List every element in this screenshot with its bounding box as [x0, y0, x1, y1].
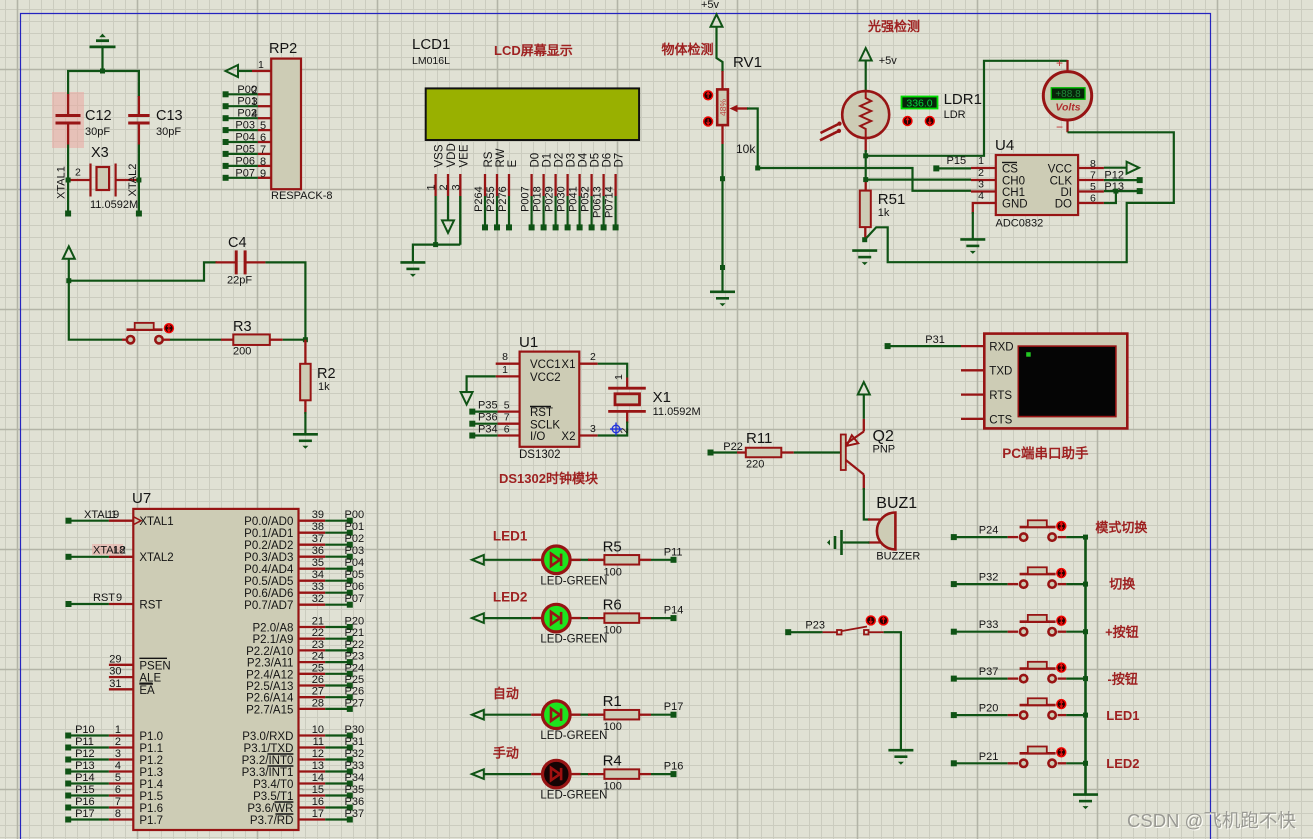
- wire P14: [68, 782, 109, 784]
- net label P13: [1104, 181, 1124, 193]
- value 100: [604, 566, 622, 578]
- svg-text:DI: DI: [1061, 187, 1073, 199]
- terminal P05: [347, 578, 353, 584]
- net label XTAL2: [93, 545, 126, 557]
- pin number 31: [109, 678, 121, 690]
- pin RP2 6: [258, 141, 271, 143]
- pin name P1.0: [139, 731, 163, 743]
- ground BUZ1 (rotated): [827, 530, 842, 555]
- svg-text:1: 1: [978, 155, 984, 167]
- pin name XTAL2: [139, 552, 173, 564]
- svg-text:38: 38: [312, 521, 324, 533]
- pin U1 6: [498, 434, 520, 436]
- net label P36: [345, 796, 365, 808]
- wire to X1 top: [598, 364, 628, 378]
- svg-text:P17: P17: [664, 701, 684, 713]
- capacitor C12: [56, 116, 81, 124]
- pin name CS: [1002, 164, 1018, 176]
- pin U4 1: [971, 167, 996, 169]
- terminal P35: [347, 793, 353, 799]
- terminal P22: [347, 647, 353, 653]
- terminal P36: [347, 805, 353, 811]
- svg-text:11.0592M: 11.0592M: [90, 199, 138, 211]
- terminal P31: [885, 343, 891, 349]
- net +5v: [701, 0, 720, 11]
- pin LCD D0: [530, 174, 532, 196]
- net label P03: [345, 545, 365, 557]
- svg-text:27: 27: [312, 686, 324, 698]
- svg-text:6: 6: [504, 424, 510, 436]
- pin U7 8: [109, 818, 133, 820]
- net label P10: [75, 724, 95, 736]
- svg-text:P0.1/AD1: P0.1/AD1: [244, 528, 293, 540]
- wire XTAL1: [69, 520, 109, 522]
- pin LDR bottom lead: [865, 138, 867, 153]
- terminal P01: [223, 103, 229, 109]
- svg-text:LED-GREEN: LED-GREEN: [540, 634, 607, 646]
- net label P20: [345, 616, 365, 628]
- pin LCD VDD: [447, 174, 449, 196]
- wire net P041: [578, 196, 580, 227]
- LDR LDR1 photoresistor: [820, 91, 889, 140]
- svg-text:30pF: 30pF: [85, 126, 110, 138]
- pin U7 30: [109, 676, 133, 678]
- wire LED1 to R5: [581, 559, 590, 561]
- net label P22: [345, 639, 365, 651]
- pin U1 5: [498, 410, 520, 412]
- terminal P041: [577, 224, 583, 230]
- wire P00: [226, 93, 258, 95]
- svg-text:7: 7: [115, 796, 121, 808]
- pin number 7: [260, 144, 266, 156]
- pin number 35: [312, 557, 324, 569]
- net label P15: [75, 784, 95, 796]
- svg-text:RW: RW: [495, 148, 507, 167]
- wire net P0714: [614, 196, 616, 227]
- wire net P052: [590, 196, 592, 227]
- net label P029: [544, 186, 556, 212]
- pin name E: [507, 160, 519, 168]
- pin C13 top lead: [138, 96, 140, 115]
- pin name D0: [530, 153, 542, 168]
- svg-text:336.0: 336.0: [906, 98, 932, 110]
- svg-text:PC端串口助手: PC端串口助手: [1002, 445, 1089, 461]
- wire RV1 to CH1: [758, 168, 971, 191]
- adjust button LDR down: [925, 116, 935, 126]
- pin LCD VEE: [459, 174, 461, 196]
- terminal P23: [785, 629, 791, 635]
- label Q2: [873, 428, 894, 445]
- svg-text:D4: D4: [578, 152, 590, 167]
- adjust button reset: [164, 323, 174, 333]
- terminal P02: [223, 115, 229, 121]
- svg-text:R11: R11: [746, 430, 772, 447]
- terminal P029: [553, 224, 559, 230]
- net label RST: [93, 592, 115, 604]
- svg-text:5: 5: [260, 120, 266, 132]
- pin number 5: [115, 772, 121, 784]
- svg-text:1: 1: [258, 59, 264, 71]
- wire XTAL top rail: [68, 71, 139, 97]
- arrow output LED auto: [472, 710, 484, 720]
- label minus: [1056, 120, 1063, 134]
- pin name PSEN: [139, 660, 170, 672]
- pin U4 2: [971, 179, 996, 181]
- svg-text:P007: P007: [520, 186, 532, 212]
- svg-text:26: 26: [312, 674, 324, 686]
- svg-text:P3.7/RD: P3.7/RD: [250, 815, 293, 827]
- arrow output LED manual: [472, 769, 484, 779]
- pin U4 8: [1078, 167, 1104, 169]
- wire P13: [1104, 190, 1140, 192]
- potentiometer RV1: [717, 89, 728, 125]
- junction R51 top: [863, 177, 868, 182]
- net label P37: [979, 666, 999, 678]
- pin name D3: [566, 153, 578, 168]
- net label P0613: [592, 186, 604, 218]
- pin number 7: [1090, 170, 1096, 182]
- svg-text:DS1302时钟模块: DS1302时钟模块: [499, 471, 599, 486]
- pin U7 7: [109, 806, 133, 808]
- pin U7 37: [299, 544, 326, 546]
- pin number 24: [312, 651, 324, 663]
- terminal P03: [347, 554, 353, 560]
- svg-text:P3.6/WR: P3.6/WR: [247, 803, 293, 815]
- wire R11 to Q2 base: [794, 451, 841, 453]
- pin number 2: [115, 736, 121, 748]
- pin R3 left lead: [221, 339, 233, 341]
- svg-text:P13: P13: [75, 760, 95, 772]
- svg-text:P32: P32: [345, 748, 365, 760]
- resistor R1: [604, 710, 639, 720]
- svg-text:+按钮: +按钮: [1105, 625, 1139, 640]
- pin R2 bottom lead: [304, 400, 306, 414]
- wire P15: [936, 167, 971, 169]
- push button P37: [1020, 662, 1056, 683]
- net label P16: [75, 796, 95, 808]
- svg-text:P33: P33: [979, 619, 999, 631]
- pin R11 right lead: [781, 451, 794, 453]
- pin name DO: [1055, 199, 1072, 211]
- wire P21: [954, 762, 1008, 764]
- svg-text:21: 21: [312, 616, 324, 628]
- pin name VEE: [458, 144, 470, 167]
- terminal P11: [65, 745, 71, 751]
- svg-text:P37: P37: [345, 808, 365, 820]
- net label P255: [485, 186, 497, 212]
- pin U7 10: [299, 734, 326, 736]
- pin U1 3: [579, 434, 597, 436]
- svg-text:P30: P30: [345, 724, 365, 736]
- wire P25: [325, 684, 350, 686]
- terminal P01: [347, 530, 353, 536]
- label plus: [1056, 56, 1063, 70]
- arrow output LED1: [472, 555, 484, 565]
- value LED-GREEN: [540, 730, 607, 742]
- svg-text:200: 200: [233, 346, 251, 358]
- wire P20: [325, 626, 350, 628]
- pin name P1.7: [139, 815, 163, 827]
- wire P31: [325, 746, 350, 748]
- pin X3 lead 1: [68, 179, 90, 181]
- wire P37: [954, 677, 1008, 679]
- wire VEE to VSS: [436, 244, 461, 246]
- caption PC端串口助手: [1002, 445, 1089, 461]
- svg-text:1k: 1k: [318, 381, 330, 393]
- wire XTAL1 down: [67, 180, 69, 213]
- net label P23: [805, 620, 825, 632]
- terminal P264: [482, 224, 488, 230]
- terminal P15: [65, 793, 71, 799]
- pin number 2: [438, 184, 450, 190]
- pin number 9: [260, 168, 266, 180]
- pin number 13: [312, 760, 324, 772]
- terminal XTAL1: [65, 211, 71, 217]
- push button reset: [127, 323, 163, 344]
- svg-text:EA: EA: [139, 685, 155, 697]
- pin number 3: [252, 96, 258, 108]
- pin name D4: [578, 152, 590, 167]
- net label P24: [979, 525, 999, 537]
- pin number 1: [258, 59, 264, 71]
- svg-text:D1: D1: [542, 153, 554, 168]
- svg-text:DS1302: DS1302: [519, 449, 561, 461]
- pin number 3: [450, 184, 462, 190]
- svg-text:48%: 48%: [718, 99, 728, 116]
- pin name P1.5: [139, 791, 163, 803]
- svg-text:P14: P14: [75, 772, 95, 784]
- net label P31: [925, 334, 945, 346]
- net label P30: [345, 724, 365, 736]
- wire LCD VDD: [447, 196, 449, 221]
- svg-text:P21: P21: [979, 751, 999, 763]
- caption LED2: [493, 589, 528, 604]
- svg-text:P24: P24: [979, 525, 999, 537]
- svg-text:P22: P22: [345, 639, 365, 651]
- terminal P14: [671, 615, 677, 621]
- pin RXD: [961, 345, 984, 347]
- svg-text:P3.2/INT0: P3.2/INT0: [242, 755, 294, 767]
- pin R6 left lead: [588, 617, 604, 619]
- label X3: [91, 145, 109, 161]
- pin button P37 right: [1058, 677, 1067, 679]
- wire P00: [325, 520, 350, 522]
- svg-text:P2.2/A10: P2.2/A10: [246, 646, 293, 658]
- svg-text:BUZZER: BUZZER: [876, 551, 920, 563]
- junction reset node: [66, 278, 71, 283]
- terminal P37: [951, 676, 957, 682]
- svg-text:物体检测: 物体检测: [662, 42, 714, 57]
- wire P27: [325, 708, 350, 710]
- pin number 1: [502, 364, 508, 376]
- net label P32: [345, 748, 365, 760]
- value 220: [746, 459, 764, 471]
- svg-text:RST: RST: [93, 592, 115, 604]
- adjust button RV1 down: [703, 116, 713, 126]
- wire P03: [325, 556, 350, 558]
- pin R5 right lead: [639, 559, 651, 561]
- ground R51: [852, 251, 877, 266]
- pin name P2.7/A15: [246, 704, 293, 716]
- pin U7 12: [299, 758, 326, 760]
- wire P02: [226, 117, 258, 119]
- pin name CLK: [1050, 176, 1073, 188]
- terminal P33: [951, 629, 957, 635]
- wire P24: [325, 673, 350, 675]
- pin U7 31: [109, 688, 133, 690]
- svg-text:LCD屏幕显示: LCD屏幕显示: [494, 43, 573, 58]
- svg-text:11.0592M: 11.0592M: [653, 406, 701, 418]
- junction DI/DO: [1113, 189, 1118, 194]
- pin name VCC2: [530, 372, 561, 384]
- power +5V arrow reset: [63, 246, 75, 258]
- pin name P0.2/AD2: [244, 540, 293, 552]
- wire P36: [325, 806, 350, 808]
- svg-text:P3.5/T1: P3.5/T1: [253, 791, 293, 803]
- pin name I/O: [530, 431, 545, 443]
- svg-text:LED1: LED1: [1106, 708, 1139, 723]
- svg-text:3: 3: [252, 96, 258, 108]
- svg-text:34: 34: [312, 569, 324, 581]
- pin LCD D2: [554, 174, 556, 196]
- net label P041: [568, 186, 580, 212]
- svg-text:P06: P06: [235, 155, 255, 167]
- caption 切换: [1109, 577, 1136, 592]
- net label P33: [345, 760, 365, 772]
- wire net P264: [484, 196, 486, 227]
- pin U7 35: [299, 568, 326, 570]
- origin marker: [610, 423, 622, 436]
- wire net P255: [496, 196, 498, 227]
- label U4: [995, 137, 1014, 154]
- svg-text:CSDN @飞机跑不快: CSDN @飞机跑不快: [1127, 810, 1296, 831]
- net label P052: [580, 186, 592, 212]
- svg-text:XTAL1: XTAL1: [56, 166, 68, 199]
- pin R51 top lead: [865, 180, 867, 191]
- terminal P34: [347, 781, 353, 787]
- terminal P14: [65, 781, 71, 787]
- svg-text:P36: P36: [345, 796, 365, 808]
- svg-text:P07: P07: [235, 167, 255, 179]
- pin number 19: [107, 509, 119, 521]
- pin U7 2: [109, 746, 133, 748]
- power arrow VCC2: [461, 392, 473, 405]
- value 100: [604, 625, 622, 637]
- pin name D1: [542, 153, 554, 168]
- resistor R51: [860, 191, 871, 228]
- terminal P03: [223, 127, 229, 133]
- net label P07: [345, 593, 365, 605]
- terminal P04: [223, 139, 229, 145]
- push button P33: [1020, 615, 1056, 636]
- pin name P1.3: [139, 767, 163, 779]
- svg-text:P1.7: P1.7: [139, 815, 163, 827]
- net label P276: [497, 186, 509, 212]
- pin number 4: [252, 108, 258, 120]
- wire P33 to bus: [1066, 631, 1085, 633]
- svg-text:+5v: +5v: [701, 0, 720, 11]
- pin BUZ1 +: [868, 518, 881, 520]
- pin U4 3: [971, 190, 996, 192]
- net label P20: [979, 703, 999, 715]
- pin U7 4: [109, 770, 133, 772]
- pin number 2 X1: [619, 428, 631, 434]
- pin name P2.0/A8: [252, 623, 293, 635]
- svg-text:P31: P31: [345, 736, 365, 748]
- pin name P3.3/INT1: [242, 767, 294, 779]
- svg-text:1: 1: [502, 364, 508, 376]
- pin number 1: [115, 724, 121, 736]
- wire P20: [954, 714, 1008, 716]
- svg-text:P03: P03: [235, 120, 255, 132]
- pin U1 2: [579, 363, 597, 365]
- caption LED1: [493, 528, 528, 543]
- push button P20: [1020, 698, 1056, 719]
- pin name VCC: [1048, 164, 1072, 176]
- net label P31: [345, 736, 365, 748]
- svg-text:15: 15: [312, 784, 324, 796]
- selection highlight C12: [52, 92, 84, 148]
- net label P02: [237, 108, 257, 120]
- wire P16: [68, 806, 109, 808]
- label LCD1: [412, 36, 450, 53]
- svg-text:P030: P030: [556, 186, 568, 212]
- adjust button P23 down: [866, 615, 876, 625]
- resistor R4: [604, 769, 639, 779]
- svg-text:+88.8: +88.8: [1055, 89, 1081, 100]
- svg-text:I/O: I/O: [530, 431, 545, 443]
- svg-text:P23: P23: [345, 651, 365, 663]
- wire P31: [888, 345, 961, 347]
- pin U7 13: [299, 770, 326, 772]
- net label P37: [345, 808, 365, 820]
- svg-text:XTAL2: XTAL2: [139, 552, 173, 564]
- LCD display LM016L: [426, 88, 639, 140]
- wire R5 to P11: [651, 559, 674, 561]
- svg-text:10k: 10k: [736, 142, 756, 156]
- pin button P33 left: [1008, 631, 1018, 633]
- svg-text:P276: P276: [497, 186, 509, 212]
- pin U7 14: [299, 782, 326, 784]
- svg-text:LED-GREEN: LED-GREEN: [540, 575, 607, 587]
- net label P01: [237, 96, 257, 108]
- terminal P06: [347, 590, 353, 596]
- terminal P0613: [601, 224, 607, 230]
- wire Q2 collector to +5V: [863, 396, 865, 419]
- net label P34: [345, 772, 365, 784]
- wire P33: [954, 631, 1008, 633]
- net label P030: [556, 186, 568, 212]
- svg-text:4: 4: [252, 108, 258, 120]
- svg-text:2: 2: [590, 351, 596, 363]
- svg-text:D5: D5: [590, 153, 602, 168]
- svg-text:P36: P36: [478, 412, 498, 424]
- pin name D5: [590, 153, 602, 168]
- terminal P06: [223, 163, 229, 169]
- pin name XTAL1: [139, 516, 173, 528]
- pin number 5: [504, 400, 510, 412]
- adjust button P32: [1056, 568, 1066, 578]
- svg-text:P1.3: P1.3: [139, 767, 163, 779]
- svg-text:D6: D6: [602, 153, 614, 168]
- svg-text:CTS: CTS: [989, 414, 1012, 426]
- svg-text:P02: P02: [345, 533, 365, 545]
- wire LCD VSS: [435, 196, 437, 245]
- svg-text:TXD: TXD: [989, 366, 1012, 378]
- pin name SCLK: [530, 420, 560, 432]
- svg-text:28: 28: [312, 697, 324, 709]
- label R6: [603, 597, 622, 614]
